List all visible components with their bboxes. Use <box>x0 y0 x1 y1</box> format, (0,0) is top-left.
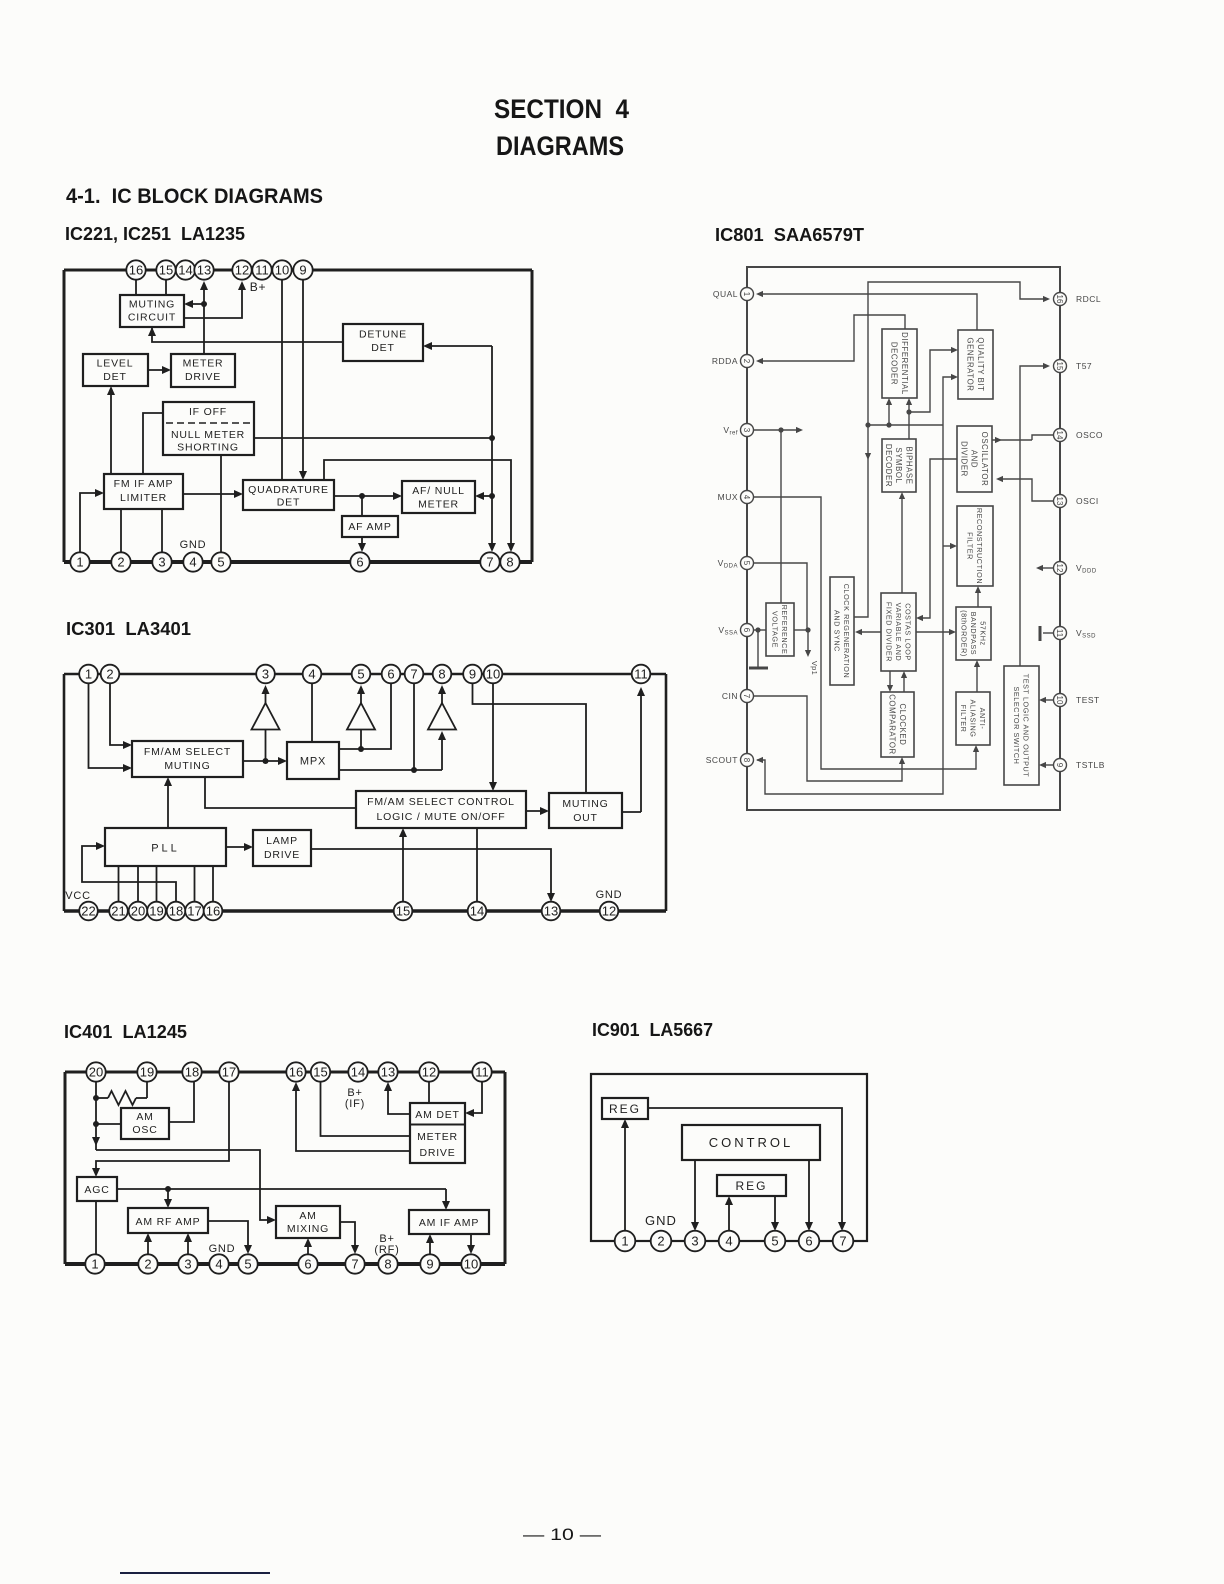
svg-text:MIXING: MIXING <box>287 1223 329 1235</box>
svg-text:VDDA: VDDA <box>718 558 738 570</box>
svg-text:DRIVE: DRIVE <box>419 1147 455 1159</box>
svg-text:RDDA: RDDA <box>712 356 738 366</box>
svg-text:18: 18 <box>185 1065 199 1080</box>
svg-text:QUADRATURE: QUADRATURE <box>248 484 329 496</box>
svg-text:MPX: MPX <box>300 756 326 768</box>
svg-text:AM IF AMP: AM IF AMP <box>419 1217 479 1229</box>
svg-text:10: 10 <box>275 263 289 278</box>
svg-text:14: 14 <box>351 1065 365 1080</box>
svg-text:DECODER: DECODER <box>890 342 899 385</box>
svg-text:LIMITER: LIMITER <box>120 492 167 504</box>
svg-text:DECODER: DECODER <box>884 444 893 487</box>
svg-text:14: 14 <box>178 263 192 278</box>
svg-text:1: 1 <box>76 555 83 570</box>
svg-text:LEVEL: LEVEL <box>97 358 134 370</box>
svg-text:4: 4 <box>215 1257 222 1272</box>
svg-text:1: 1 <box>621 1234 628 1249</box>
svg-text:2: 2 <box>117 555 124 570</box>
svg-text:2: 2 <box>657 1234 664 1249</box>
svg-text:OSCI: OSCI <box>1076 496 1099 506</box>
svg-text:ALIASING: ALIASING <box>968 700 977 738</box>
svg-text:IC401 LA1245: IC401 LA1245 <box>64 1022 187 1042</box>
svg-text:IC221, IC251 LA1235: IC221, IC251 LA1235 <box>65 223 245 244</box>
svg-text:METER: METER <box>183 358 224 370</box>
svg-text:GND: GND <box>645 1213 677 1228</box>
svg-text:BIPHASE: BIPHASE <box>904 447 913 485</box>
svg-text:TSTLB: TSTLB <box>1076 760 1105 770</box>
svg-text:IC801 SAA6579T: IC801 SAA6579T <box>715 224 865 245</box>
svg-text:15: 15 <box>313 1065 327 1080</box>
svg-text:TEST LOGIC AND OUTPUT: TEST LOGIC AND OUTPUT <box>1022 674 1031 778</box>
svg-text:8: 8 <box>384 1257 391 1272</box>
svg-text:AM: AM <box>136 1111 153 1123</box>
svg-text:MUTING: MUTING <box>562 798 608 810</box>
svg-text:2: 2 <box>106 667 113 682</box>
svg-text:4: 4 <box>742 495 751 500</box>
svg-text:T57: T57 <box>1076 361 1092 371</box>
svg-text:6: 6 <box>356 555 363 570</box>
svg-text:4: 4 <box>189 555 196 570</box>
svg-text:2: 2 <box>742 359 751 364</box>
svg-text:(IF): (IF) <box>345 1098 365 1110</box>
svg-text:ANTI-: ANTI- <box>978 708 987 730</box>
svg-text:SELECTOR SWITCH: SELECTOR SWITCH <box>1012 687 1021 765</box>
svg-text:AF/ NULL: AF/ NULL <box>412 485 465 497</box>
svg-text:Vref: Vref <box>723 425 738 437</box>
svg-text:VDDD: VDDD <box>1076 563 1097 575</box>
svg-text:MUTING: MUTING <box>129 299 175 311</box>
svg-text:16: 16 <box>1055 295 1064 304</box>
svg-text:3: 3 <box>184 1257 191 1272</box>
svg-text:8: 8 <box>438 667 445 682</box>
svg-text:13: 13 <box>1055 497 1064 506</box>
svg-text:10: 10 <box>1055 696 1064 705</box>
svg-text:CONTROL: CONTROL <box>709 1135 794 1150</box>
svg-text:NULL METER: NULL METER <box>171 429 245 441</box>
svg-text:IF OFF: IF OFF <box>189 406 227 418</box>
svg-text:REG: REG <box>735 1179 767 1193</box>
svg-text:9: 9 <box>299 263 306 278</box>
svg-text:AF AMP: AF AMP <box>348 521 391 533</box>
svg-text:12: 12 <box>602 904 616 919</box>
svg-text:VSSD: VSSD <box>1076 628 1096 640</box>
svg-text:3: 3 <box>691 1234 698 1249</box>
svg-text:16: 16 <box>129 263 143 278</box>
svg-text:14: 14 <box>1055 431 1064 440</box>
svg-text:12: 12 <box>235 263 249 278</box>
svg-text:LOGIC / MUTE ON/OFF: LOGIC / MUTE ON/OFF <box>377 811 506 823</box>
svg-text:7: 7 <box>742 694 751 699</box>
svg-text:6: 6 <box>304 1257 311 1272</box>
svg-text:CLOCKED: CLOCKED <box>898 704 907 746</box>
svg-text:(8thORDER): (8thORDER) <box>959 610 968 657</box>
svg-text:CIRCUIT: CIRCUIT <box>128 312 176 324</box>
svg-text:18: 18 <box>169 904 183 919</box>
svg-text:OSC: OSC <box>132 1124 157 1136</box>
svg-text:19: 19 <box>140 1065 154 1080</box>
svg-text:SHORTING: SHORTING <box>177 442 239 454</box>
svg-text:DET: DET <box>103 371 126 383</box>
svg-text:11: 11 <box>634 667 648 682</box>
svg-text:20: 20 <box>89 1065 103 1080</box>
svg-text:METER: METER <box>418 499 459 511</box>
svg-text:57KHz: 57KHz <box>979 621 988 646</box>
svg-text:7: 7 <box>839 1234 846 1249</box>
svg-text:SECTION 4: SECTION 4 <box>494 94 629 124</box>
svg-text:AGC: AGC <box>84 1184 109 1196</box>
svg-text:VCC: VCC <box>65 890 91 902</box>
svg-text:DRIVE: DRIVE <box>185 371 221 383</box>
svg-text:FM/AM SELECT: FM/AM SELECT <box>144 746 231 758</box>
svg-text:GND: GND <box>596 889 623 901</box>
svg-text:5: 5 <box>742 561 751 566</box>
svg-text:FM/AM SELECT CONTROL: FM/AM SELECT CONTROL <box>367 796 515 808</box>
svg-text:1: 1 <box>91 1257 98 1272</box>
svg-text:DIVIDER: DIVIDER <box>959 441 968 477</box>
svg-text:15: 15 <box>159 263 173 278</box>
svg-text:QUALITY BIT: QUALITY BIT <box>976 337 985 391</box>
svg-text:9: 9 <box>1055 763 1064 768</box>
svg-text:9: 9 <box>469 667 476 682</box>
svg-text:AM RF AMP: AM RF AMP <box>136 1216 201 1228</box>
svg-text:15: 15 <box>396 904 410 919</box>
svg-text:17: 17 <box>187 904 201 919</box>
svg-text:4: 4 <box>308 667 315 682</box>
svg-text:11: 11 <box>1055 629 1064 638</box>
svg-text:11: 11 <box>475 1065 489 1080</box>
svg-text:10: 10 <box>486 667 500 682</box>
svg-text:BANDPASS: BANDPASS <box>969 612 978 655</box>
svg-text:17: 17 <box>222 1065 236 1080</box>
svg-text:DIAGRAMS: DIAGRAMS <box>496 131 624 161</box>
svg-text:MUX: MUX <box>718 492 738 502</box>
svg-text:19: 19 <box>149 904 163 919</box>
svg-text:FILTER: FILTER <box>966 532 975 560</box>
svg-text:CLOCK REGENERATION: CLOCK REGENERATION <box>842 584 851 679</box>
svg-text:10: 10 <box>464 1257 478 1272</box>
svg-text:GND: GND <box>209 1243 236 1255</box>
svg-text:13: 13 <box>544 904 558 919</box>
svg-text:12: 12 <box>1055 564 1064 573</box>
svg-text:RECONSTRUCTION: RECONSTRUCTION <box>975 508 984 584</box>
svg-text:OSCO: OSCO <box>1076 430 1103 440</box>
svg-text:5: 5 <box>357 667 364 682</box>
svg-text:3: 3 <box>742 428 751 433</box>
svg-text:REG: REG <box>609 1102 641 1116</box>
svg-text:IC901 LA5667: IC901 LA5667 <box>592 1020 713 1040</box>
svg-text:21: 21 <box>111 904 125 919</box>
svg-text:3: 3 <box>158 555 165 570</box>
svg-text:5: 5 <box>244 1257 251 1272</box>
svg-text:6: 6 <box>805 1234 812 1249</box>
svg-text:Vp1: Vp1 <box>810 661 819 675</box>
svg-text:AM DET: AM DET <box>415 1109 459 1121</box>
svg-text:RDCL: RDCL <box>1076 294 1101 304</box>
svg-text:11: 11 <box>255 263 269 278</box>
svg-text:13: 13 <box>197 263 211 278</box>
svg-text:DETUNE: DETUNE <box>359 329 407 341</box>
svg-text:LAMP: LAMP <box>266 835 298 847</box>
svg-text:16: 16 <box>289 1065 303 1080</box>
svg-text:B+: B+ <box>250 280 267 294</box>
svg-text:FILTER: FILTER <box>959 705 968 733</box>
svg-text:6: 6 <box>387 667 394 682</box>
svg-text:SYMBOL: SYMBOL <box>894 447 903 483</box>
svg-text:8: 8 <box>506 555 513 570</box>
svg-text:16: 16 <box>206 904 220 919</box>
svg-text:8: 8 <box>742 758 751 763</box>
svg-text:AM: AM <box>299 1210 316 1222</box>
svg-text:FM IF AMP: FM IF AMP <box>114 478 174 490</box>
svg-text:MUTING: MUTING <box>164 760 210 772</box>
svg-text:5: 5 <box>771 1234 778 1249</box>
svg-text:DET: DET <box>277 497 300 509</box>
svg-text:DRIVE: DRIVE <box>264 849 300 861</box>
svg-text:4-1. IC BLOCK DIAGRAMS: 4-1. IC BLOCK DIAGRAMS <box>66 184 323 208</box>
svg-text:DET: DET <box>371 342 394 354</box>
svg-text:6: 6 <box>742 628 751 633</box>
svg-text:4: 4 <box>725 1234 732 1249</box>
svg-text:REFERENCE: REFERENCE <box>780 605 789 655</box>
svg-text:COSTAS LOOP: COSTAS LOOP <box>904 603 913 661</box>
svg-text:2: 2 <box>144 1257 151 1272</box>
svg-text:— 10 —: — 10 — <box>523 1525 601 1544</box>
svg-text:13: 13 <box>381 1065 395 1080</box>
svg-text:22: 22 <box>81 904 95 919</box>
svg-text:7: 7 <box>486 555 493 570</box>
svg-text:5: 5 <box>217 555 224 570</box>
svg-text:3: 3 <box>262 667 269 682</box>
svg-text:CIN: CIN <box>722 691 738 701</box>
svg-text:FIXED DIVIDER: FIXED DIVIDER <box>884 602 893 662</box>
svg-text:GND: GND <box>180 539 207 551</box>
svg-text:7: 7 <box>351 1257 358 1272</box>
svg-text:SCOUT: SCOUT <box>706 755 738 765</box>
svg-text:9: 9 <box>426 1257 433 1272</box>
svg-text:COMPARATOR: COMPARATOR <box>888 694 897 755</box>
svg-text:GENERATOR: GENERATOR <box>966 337 975 391</box>
svg-text:IC301 LA3401: IC301 LA3401 <box>66 619 191 639</box>
svg-text:15: 15 <box>1055 362 1064 371</box>
svg-text:VARIABLE AND: VARIABLE AND <box>894 603 903 662</box>
svg-text:OUT: OUT <box>573 812 598 824</box>
svg-text:QUAL: QUAL <box>713 289 738 299</box>
svg-text:12: 12 <box>422 1065 436 1080</box>
svg-text:METER: METER <box>417 1131 458 1143</box>
svg-text:7: 7 <box>410 667 417 682</box>
svg-text:20: 20 <box>131 904 145 919</box>
svg-text:AND SYNC: AND SYNC <box>833 610 842 652</box>
svg-text:VSSA: VSSA <box>718 625 738 637</box>
svg-text:AND: AND <box>970 450 979 468</box>
svg-text:14: 14 <box>470 904 484 919</box>
svg-text:DIFFERENTIAL: DIFFERENTIAL <box>900 332 909 395</box>
svg-text:TEST: TEST <box>1076 695 1100 705</box>
svg-text:1: 1 <box>742 292 751 297</box>
svg-text:1: 1 <box>85 667 92 682</box>
svg-text:OSCILLATOR: OSCILLATOR <box>980 432 989 487</box>
svg-text:VOLTAGE: VOLTAGE <box>771 611 780 648</box>
svg-text:PLL: PLL <box>151 843 180 855</box>
